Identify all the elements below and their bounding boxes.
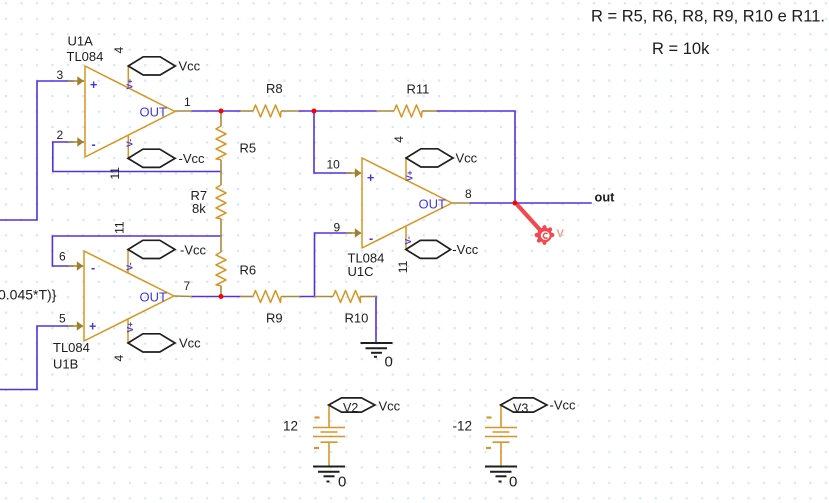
svg-text:U1B: U1B [53,357,78,372]
svg-text:V-: V- [125,139,135,147]
svg-text:V2: V2 [343,401,358,415]
svg-text:2: 2 [57,128,64,142]
svg-text:U1C: U1C [348,264,374,279]
svg-text:V+: V+ [405,170,415,181]
svg-text:0: 0 [385,354,393,371]
svg-text:+: + [89,320,96,334]
svg-text:V3: V3 [513,402,528,416]
svg-text:-Vcc: -Vcc [550,398,577,413]
svg-text:+: + [90,78,97,92]
svg-text:-Vcc: -Vcc [180,243,207,258]
svg-text:11: 11 [112,221,126,234]
svg-text:+: + [367,171,374,185]
svg-text:6: 6 [59,250,66,264]
svg-text:V-: V- [403,236,413,244]
svg-text:Vcc: Vcc [456,151,478,166]
svg-text:U1A: U1A [68,34,94,49]
svg-text:-: - [91,261,95,275]
svg-text:12: 12 [283,419,298,434]
svg-text:-Vcc: -Vcc [452,242,479,257]
svg-text:-: - [369,232,373,246]
svg-text:8k: 8k [192,201,206,216]
svg-text:5: 5 [59,312,66,326]
svg-text:10: 10 [327,157,341,171]
svg-text:R = R5, R6, R8, R9, R10 e R11.: R = R5, R6, R8, R9, R10 e R11. [591,7,825,25]
svg-text:-12: -12 [453,419,473,434]
svg-text:R8: R8 [266,81,283,96]
svg-text:9: 9 [334,221,341,235]
svg-text:TL084: TL084 [53,340,90,355]
svg-text:4: 4 [112,355,126,362]
svg-text:V-: V- [125,262,135,270]
svg-text:0: 0 [509,474,517,491]
svg-text:R = 10k: R = 10k [652,40,710,58]
svg-text:-: - [92,138,96,152]
svg-text:0: 0 [338,474,346,491]
svg-text:R11: R11 [407,82,430,97]
svg-text:1: 1 [184,95,191,109]
svg-text:TL084: TL084 [67,49,104,64]
svg-text:V+: V+ [125,322,135,333]
svg-text:11: 11 [396,260,410,273]
svg-text:8: 8 [465,187,472,201]
svg-text:OUT: OUT [140,105,168,120]
svg-text:Vcc: Vcc [179,336,201,351]
svg-text:7: 7 [184,279,191,293]
svg-text:4: 4 [392,136,406,143]
svg-text:11: 11 [108,167,122,180]
svg-text:-Vcc: -Vcc [179,151,206,166]
svg-text:OUT: OUT [140,290,168,305]
svg-text:0.045*T)}: 0.045*T)} [0,287,57,303]
svg-text:R5: R5 [240,141,257,156]
svg-text:3: 3 [57,68,64,82]
svg-text:4: 4 [112,47,126,54]
svg-text:R6: R6 [240,263,257,278]
svg-text:out: out [595,190,616,205]
svg-text:R9: R9 [266,311,283,326]
svg-text:V: V [557,228,565,240]
svg-text:OUT: OUT [419,197,447,212]
svg-text:Vcc: Vcc [179,59,201,74]
svg-text:R10: R10 [345,311,369,326]
svg-text:Vcc: Vcc [379,399,401,414]
svg-text:V+: V+ [125,79,135,90]
